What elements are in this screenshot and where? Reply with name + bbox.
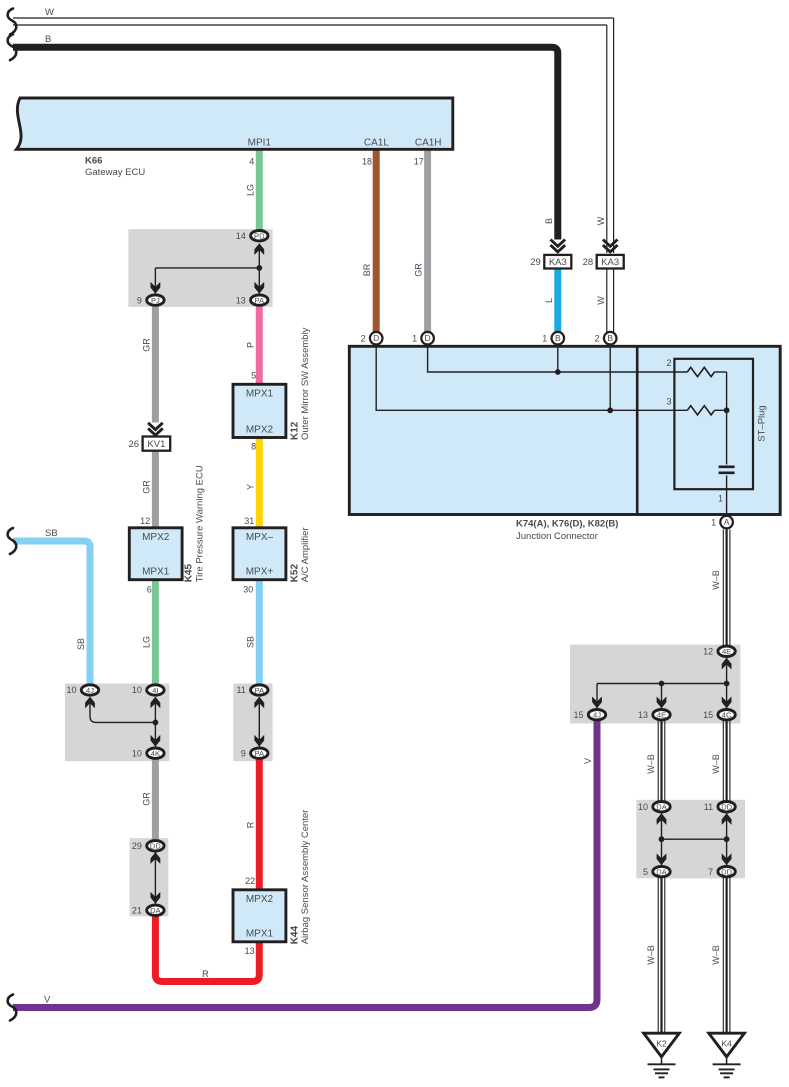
svg-text:PA: PA bbox=[255, 749, 266, 758]
svg-text:LG: LG bbox=[141, 636, 151, 648]
svg-text:ST–Plug: ST–Plug bbox=[757, 405, 768, 441]
svg-text:GR: GR bbox=[414, 263, 424, 277]
svg-text:2: 2 bbox=[361, 333, 366, 343]
svg-text:DA: DA bbox=[150, 906, 161, 915]
svg-text:13: 13 bbox=[245, 946, 255, 956]
svg-text:17: 17 bbox=[414, 157, 424, 167]
svg-text:10: 10 bbox=[132, 685, 142, 695]
svg-text:1: 1 bbox=[711, 517, 716, 527]
svg-text:SB: SB bbox=[76, 638, 86, 650]
svg-text:K45: K45 bbox=[183, 564, 194, 583]
svg-text:MPX1: MPX1 bbox=[246, 389, 274, 400]
svg-text:12: 12 bbox=[703, 647, 713, 657]
svg-text:K12: K12 bbox=[289, 421, 300, 440]
svg-text:K74(A), K76(D), K82(B): K74(A), K76(D), K82(B) bbox=[516, 519, 618, 530]
svg-text:B: B bbox=[45, 34, 51, 45]
svg-text:2: 2 bbox=[666, 358, 671, 368]
svg-text:14: 14 bbox=[236, 231, 246, 241]
svg-text:W–B: W–B bbox=[711, 570, 721, 590]
svg-text:Airbag Sensor Assembly Center: Airbag Sensor Assembly Center bbox=[300, 810, 311, 945]
svg-text:W–B: W–B bbox=[646, 945, 656, 965]
svg-text:CA1L: CA1L bbox=[364, 137, 389, 148]
svg-text:2: 2 bbox=[595, 333, 600, 343]
svg-text:15: 15 bbox=[573, 710, 583, 720]
svg-text:4I: 4I bbox=[152, 686, 158, 695]
svg-text:10: 10 bbox=[132, 748, 142, 758]
svg-text:15: 15 bbox=[703, 710, 713, 720]
svg-text:L: L bbox=[544, 298, 554, 303]
svg-text:9: 9 bbox=[137, 295, 142, 305]
svg-text:V: V bbox=[44, 994, 51, 1005]
svg-text:13: 13 bbox=[638, 710, 648, 720]
svg-text:W: W bbox=[596, 296, 606, 305]
svg-text:21: 21 bbox=[132, 906, 142, 916]
svg-text:13: 13 bbox=[236, 295, 246, 305]
svg-text:4E: 4E bbox=[657, 711, 666, 720]
svg-text:Gateway ECU: Gateway ECU bbox=[85, 167, 145, 178]
svg-text:DD: DD bbox=[721, 803, 732, 812]
svg-text:K44: K44 bbox=[289, 926, 300, 945]
svg-text:W–B: W–B bbox=[711, 754, 721, 774]
svg-text:LG: LG bbox=[245, 184, 255, 196]
svg-text:W: W bbox=[596, 216, 606, 225]
svg-text:6: 6 bbox=[147, 585, 152, 595]
svg-text:D: D bbox=[373, 333, 379, 343]
svg-text:W: W bbox=[45, 7, 54, 18]
svg-text:KV1: KV1 bbox=[147, 439, 165, 450]
svg-text:A/C Amplifier: A/C Amplifier bbox=[300, 527, 311, 582]
svg-text:K52: K52 bbox=[289, 564, 300, 583]
svg-text:4E: 4E bbox=[722, 647, 731, 656]
svg-text:MPX2: MPX2 bbox=[246, 424, 274, 435]
svg-text:MPI1: MPI1 bbox=[248, 137, 272, 148]
svg-text:1: 1 bbox=[542, 333, 547, 343]
svg-text:1: 1 bbox=[718, 494, 723, 504]
svg-text:R: R bbox=[202, 969, 209, 980]
svg-text:PA: PA bbox=[255, 686, 266, 695]
svg-text:11: 11 bbox=[236, 685, 245, 695]
svg-text:KA3: KA3 bbox=[549, 257, 567, 268]
svg-text:K2: K2 bbox=[656, 1039, 667, 1049]
svg-text:V: V bbox=[583, 758, 593, 764]
svg-text:W–B: W–B bbox=[711, 945, 721, 965]
svg-text:1: 1 bbox=[412, 333, 417, 343]
svg-text:GR: GR bbox=[141, 338, 151, 352]
svg-text:SB: SB bbox=[45, 528, 58, 539]
svg-text:BR: BR bbox=[362, 263, 372, 276]
svg-text:29: 29 bbox=[132, 841, 142, 851]
svg-text:SB: SB bbox=[245, 636, 255, 648]
svg-text:8: 8 bbox=[251, 442, 256, 452]
svg-text:5: 5 bbox=[251, 371, 256, 381]
svg-text:7: 7 bbox=[708, 867, 713, 877]
svg-text:D: D bbox=[425, 333, 431, 343]
svg-text:11: 11 bbox=[704, 802, 713, 812]
svg-text:P: P bbox=[245, 342, 255, 348]
svg-text:18: 18 bbox=[362, 157, 372, 167]
svg-text:PJ: PJ bbox=[151, 296, 160, 305]
svg-text:R: R bbox=[245, 821, 255, 828]
svg-text:28: 28 bbox=[583, 257, 594, 268]
svg-text:22: 22 bbox=[245, 876, 255, 886]
svg-text:B: B bbox=[555, 333, 561, 343]
svg-text:DD: DD bbox=[150, 842, 161, 851]
svg-text:Y: Y bbox=[245, 484, 255, 490]
svg-text:Junction Connector: Junction Connector bbox=[516, 531, 598, 542]
svg-text:B: B bbox=[607, 333, 613, 343]
svg-text:K4: K4 bbox=[721, 1039, 732, 1049]
svg-text:GR: GR bbox=[141, 480, 151, 494]
svg-text:4: 4 bbox=[249, 157, 254, 167]
svg-text:29: 29 bbox=[530, 257, 541, 268]
svg-text:Outer Mirror SW Assembly: Outer Mirror SW Assembly bbox=[300, 327, 311, 440]
svg-text:5: 5 bbox=[643, 867, 648, 877]
svg-text:DA: DA bbox=[656, 868, 667, 877]
svg-text:4J: 4J bbox=[593, 711, 601, 720]
svg-text:PA: PA bbox=[255, 296, 266, 305]
svg-text:PD: PD bbox=[254, 232, 265, 241]
svg-text:DA: DA bbox=[656, 803, 667, 812]
svg-text:W–B: W–B bbox=[646, 754, 656, 774]
svg-text:B: B bbox=[544, 218, 554, 224]
svg-text:30: 30 bbox=[243, 585, 253, 595]
svg-text:KA3: KA3 bbox=[601, 257, 619, 268]
svg-text:4K: 4K bbox=[151, 749, 160, 758]
svg-text:DD: DD bbox=[721, 868, 732, 877]
svg-text:CA1H: CA1H bbox=[415, 137, 442, 148]
svg-text:A: A bbox=[724, 517, 730, 527]
svg-text:26: 26 bbox=[129, 439, 140, 450]
svg-text:K66: K66 bbox=[85, 156, 102, 167]
svg-text:10: 10 bbox=[638, 802, 648, 812]
svg-text:MPX2: MPX2 bbox=[246, 894, 274, 905]
svg-text:10: 10 bbox=[66, 685, 76, 695]
svg-text:4C: 4C bbox=[722, 711, 732, 720]
svg-text:31: 31 bbox=[244, 516, 254, 526]
svg-text:4J: 4J bbox=[86, 686, 94, 695]
svg-text:MPX–: MPX– bbox=[246, 532, 274, 543]
svg-text:MPX2: MPX2 bbox=[142, 532, 170, 543]
svg-text:3: 3 bbox=[666, 397, 671, 407]
svg-text:GR: GR bbox=[141, 792, 151, 806]
svg-text:MPX1: MPX1 bbox=[246, 929, 274, 940]
svg-text:Tire Pressure Warning ECU: Tire Pressure Warning ECU bbox=[194, 465, 205, 582]
svg-text:12: 12 bbox=[140, 516, 150, 526]
svg-text:MPX1: MPX1 bbox=[142, 567, 170, 578]
svg-text:9: 9 bbox=[241, 748, 246, 758]
svg-text:MPX+: MPX+ bbox=[246, 567, 274, 578]
